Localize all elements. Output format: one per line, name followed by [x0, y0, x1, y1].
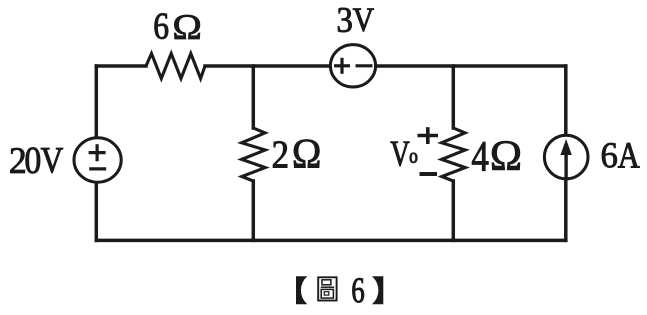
voltage source V2 plus sign — [334, 58, 350, 74]
Vo minus sign — [420, 172, 438, 176]
voltage source V2 3V circle — [330, 45, 375, 87]
caption left lenticular bracket — [296, 276, 307, 304]
label 20V — [11, 148, 63, 174]
resistor R1 6ohm — [146, 54, 205, 79]
wire left branch — [95, 66, 99, 240]
voltage source V1 20V circle — [74, 138, 121, 182]
label 6A — [602, 143, 640, 167]
current source I1 arrow shaft — [564, 150, 567, 179]
voltage source V1 minus sign — [89, 167, 106, 170]
caption number 6 — [353, 278, 364, 302]
resistor R3 4ohm — [442, 128, 466, 181]
wire middle branch upper — [252, 66, 256, 128]
current source I1 arrow head — [560, 139, 571, 155]
wire right branch — [564, 66, 568, 240]
caption right lenticular bracket — [372, 276, 383, 304]
wire middle branch lower — [252, 181, 256, 240]
label 4 ohm — [472, 141, 520, 171]
label 6 ohm — [155, 14, 200, 39]
label 3V — [338, 8, 374, 32]
wire top-left segment — [96, 64, 146, 68]
wire 4ohm branch upper — [452, 66, 456, 128]
wire 4ohm branch lower — [452, 181, 456, 240]
voltage source V1 plus sign — [89, 144, 106, 161]
current source I1 6A circle — [544, 135, 588, 179]
caption character tu (figure) — [318, 277, 336, 300]
voltage source V2 minus sign — [356, 64, 373, 67]
wire top-right segment — [205, 64, 566, 68]
label Vo — [391, 142, 418, 166]
resistor R2 2ohm — [242, 128, 266, 181]
Vo plus sign — [418, 127, 439, 144]
label 2 ohm — [273, 140, 319, 168]
wire bottom — [96, 239, 566, 243]
